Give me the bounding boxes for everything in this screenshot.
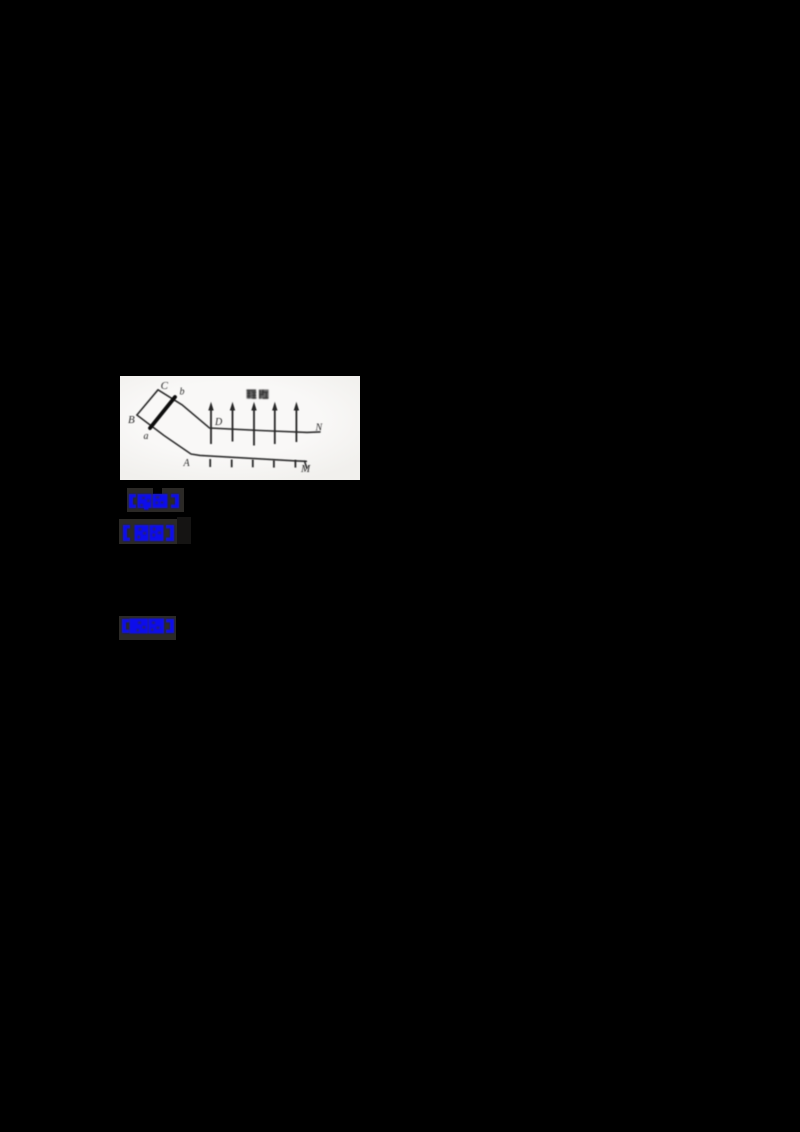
svg-text:A: A: [183, 458, 191, 469]
blue heading 3 【解答】: [119, 616, 176, 640]
field arrow 4: [272, 402, 277, 444]
wire bottom rail B-A-M: [137, 415, 306, 461]
blue heading 2 【分析】: [119, 519, 177, 544]
svg-text:N: N: [315, 423, 324, 434]
wire top rail C-D-N: [158, 390, 320, 433]
svg-text:b: b: [180, 387, 185, 398]
field line tick 3 below rail: [252, 460, 254, 468]
field line tick 5 below rail: [294, 460, 296, 468]
field arrow 2: [230, 402, 235, 442]
svg-text:B: B: [128, 414, 135, 426]
field line tick 1 below rail: [209, 459, 211, 467]
field arrow 1: [208, 402, 213, 444]
svg-text:D: D: [214, 417, 223, 428]
field line tick 4 below rail: [273, 460, 275, 468]
field line tick 2 below rail: [231, 460, 233, 468]
blue heading 1 【考点】: [127, 488, 184, 512]
svg-text:a: a: [144, 431, 149, 442]
conducting rod ab: [150, 397, 175, 428]
label 磁场 (magnetic field) char 1: [247, 390, 257, 399]
svg-text:C: C: [161, 380, 169, 392]
svg-text:M: M: [300, 463, 311, 475]
wire incline top edge C-B: [137, 390, 158, 415]
field arrow 3: [251, 402, 256, 446]
faint scan strip right of heading 2: [177, 517, 191, 544]
physics figure panel (scanned white box): [120, 376, 360, 480]
label 磁场 (magnetic field) char 2: [259, 390, 269, 399]
wire rail end hook at M: [305, 461, 307, 468]
field arrow 5: [294, 402, 299, 442]
